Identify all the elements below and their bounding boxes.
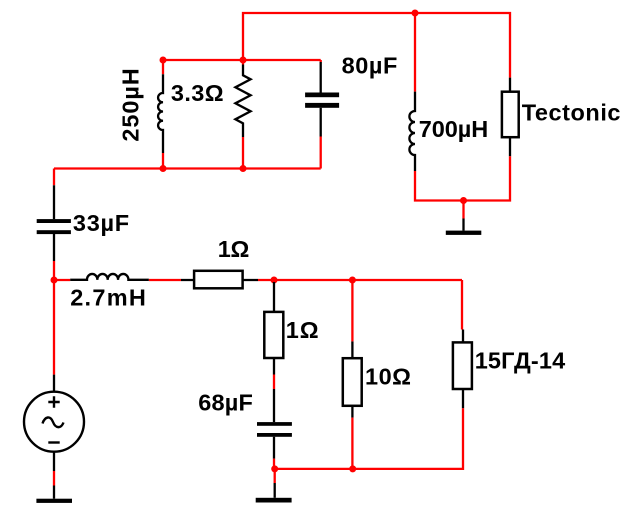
svg-text:10Ω: 10Ω [365,364,411,390]
source V1 AC [24,375,84,471]
svg-text:1Ω: 1Ω [286,317,319,343]
junction dot (352.7,468.9) [349,465,356,472]
inductor 2.7mH [70,274,149,280]
svg-text:700µH: 700µH [419,116,488,142]
junction dot (463.5,200.5) [460,197,467,204]
svg-text:2.7mH: 2.7mH [70,285,146,311]
wire stub 3.3ohm bottom lead red [242,137,244,169]
wire rail y=60 (parallel group top) [163,59,321,61]
svg-text:33µF: 33µF [73,210,129,236]
wire ground stem red (68uF) [274,469,276,483]
wire drop 700uH branch from top rail [414,13,416,92]
wire source branch red [53,280,55,375]
wire top rail (node T1 to tweeter branches) [243,13,510,78]
inductor 250uH [158,74,163,153]
wire 68uF bottom lead red [273,459,275,469]
svg-text:68µF: 68µF [198,389,253,415]
junction dot (274,280) [271,277,278,284]
wire stub 250uH top lead red [162,60,164,74]
capacitor 33uF [37,185,71,261]
junction dot (243,60) [240,57,247,64]
junction dot (163,60) [160,57,167,64]
ground (source) [36,486,72,503]
resistor 1ohm vertical (box) [264,282,283,375]
junction dot (352.4,280) [349,277,356,284]
wire bottom rail y=468.9 [275,408,463,469]
resistor Tectonic (box) [502,78,519,157]
wire stub 80uF top lead red [320,60,322,62]
svg-text:Tectonic: Tectonic [522,100,621,126]
resistor 3.3ohm (zigzag) [235,65,250,138]
junction dot (163,168.5) [160,165,167,172]
svg-text:3.3Ω: 3.3Ω [171,80,224,106]
wire 1ohm-68uF link red [273,375,275,390]
capacitor 80uF [305,62,339,137]
wire 10ohm top lead red [351,280,353,341]
wire rail y=168.5 (parallel group bottom) [54,167,321,169]
svg-text:15ГД-14: 15ГД-14 [475,348,566,374]
resistor 1ohm horizontal (box) [181,271,258,289]
svg-text:1Ω: 1Ω [218,236,250,262]
capacitor 68uF [257,389,292,459]
wire stub 3.3ohm top lead red [242,60,244,65]
svg-text:80µF: 80µF [342,52,398,78]
inductor 700uH [409,92,415,171]
wire source ground stem red [53,471,55,486]
ground (tweeter) [446,219,482,235]
wire ground stem red (tweeter) [462,201,464,219]
wire stub 33uF top lead red [53,169,55,186]
junction dot (243,168.5) [240,165,247,172]
wire mid rail segments red [54,280,462,330]
wire tweeter ground rail y=200.5 [415,156,510,200]
svg-text:250µH: 250µH [118,68,144,141]
wire stub 80uF bottom lead red [320,137,322,169]
wire 33uF bottom lead red [53,261,55,280]
wire 10ohm bottom lead red [351,418,353,469]
junction dot top rail x=415 [412,10,419,17]
resistor 10ohm (box) [343,341,362,417]
wire stub 250uH bottom lead red [162,153,164,169]
ground (68uF branch) [256,483,292,503]
junction dot (54,280) [51,277,58,284]
junction dot (274.7,468.9) [271,465,278,472]
speaker 15GD-14 (box) [453,330,472,409]
